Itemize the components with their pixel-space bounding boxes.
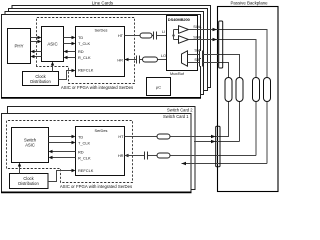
wire SOA to backplane [189,28,268,164]
buffer A [179,26,189,34]
svg-text:DS40MB200: DS40MB200 [168,17,191,22]
wire PHY-ASIC clk tx [31,40,42,43]
passive backplane [218,1,279,192]
wire clock to ASIC [51,62,54,72]
buffer B [179,36,189,44]
svg-text:ASIC: ASIC [25,143,35,148]
svg-text:SOB: SOB [193,34,202,39]
capacitor C2 (LO-HR) [137,56,140,64]
dashed box: ASIC or FPGA with integrated SerDes (switch card) [7,121,133,183]
wire into buffer A [174,29,179,31]
wire ASIC-PHY data rx [31,50,42,53]
svg-text:HR: HR [117,58,123,63]
wire clock to switch ASIC [18,163,21,174]
wire SIA from backplane [188,55,240,142]
svg-text:SOA: SOA [193,24,202,29]
wire SerDes-ASIC R_CLK (switch) [49,156,76,159]
wire PHY-ASIC data tx [31,36,42,39]
backplane connector J6 (line card edge) [219,21,223,68]
svg-text:HT: HT [118,134,124,139]
wire SIB from backplane [188,63,229,137]
line card 3 [9,9,208,91]
uC U5 [147,78,171,96]
capacitor C4 (SIB) [200,59,203,67]
backplane connector J2 (line card) [236,78,243,102]
wire LO to HR [125,59,182,61]
svg-text:HR: HR [118,153,124,158]
svg-text:Distribution: Distribution [18,181,39,186]
svg-text:TD: TD [78,134,83,139]
svg-text:ASIC or FPGA with integrated S: ASIC or FPGA with integrated SerDes [60,184,132,189]
switch card 2 [8,107,196,190]
wire ASIC-PHY clk rx [31,55,42,58]
line card 1 (front) [2,15,201,98]
svg-text:Distribution: Distribution [30,79,51,84]
wire ASIC-SerDes T_CLK [64,42,76,45]
capacitor C3 (SIA) [200,51,203,59]
wire SOB to backplane [189,38,257,156]
capacitor C5 (HR switch) [145,151,148,159]
backplane connector J5 (switch card) [216,126,220,167]
mux/buffer U4 DS40MB200 [167,16,198,71]
wire ASIC-SerDes TD [64,36,76,39]
svg-text:T_CLK: T_CLK [78,41,91,46]
svg-text:Switch Card 2: Switch Card 2 [167,108,193,113]
svg-text:HT: HT [118,33,124,38]
backplane connector J4 (line card) [264,78,271,102]
svg-text:ASIC or FPGA with integrated S: ASIC or FPGA with integrated SerDes [61,85,133,90]
svg-text:REFCLK: REFCLK [78,168,94,173]
backplane connector J3 (line card) [253,78,260,102]
ASIC U2 [42,27,64,62]
arrow into HR [125,58,129,61]
capacitor C1 (HT-LI) [154,32,157,40]
backplane connector J1 (line card) [225,78,232,102]
wire ASIC-SerDes TD (switch) [49,135,76,138]
svg-text:Passive Backplane: Passive Backplane [230,1,268,6]
svg-text:µC: µC [156,85,161,90]
PHY U1 [8,29,31,64]
svg-text:RD: RD [78,149,84,154]
arrow into SerDes HR (switch) [125,154,129,157]
termination Z1 (HT) [140,33,152,38]
svg-text:SerDes: SerDes [95,28,108,33]
clock distribution (line card) [23,72,59,86]
wire SerDes HT to backplane connector (switch card 1) [125,136,216,138]
svg-text:LO: LO [161,53,166,58]
line card 2 [5,12,204,95]
wire ASIC-SerDes T_CLK (switch) [49,141,76,144]
termination Z4 (HT switch) [157,134,170,139]
termination Z2 (LO) [143,57,158,62]
svg-text:SerDes: SerDes [95,128,108,133]
node junction LI split [172,34,174,36]
wire HT to LI [125,35,174,37]
wire SerDes-ASIC RD [64,50,76,53]
wire HR from backplane (switch card 1) [125,155,257,157]
svg-text:TD: TD [78,35,83,40]
line card 4 (back) [12,6,211,88]
wire clock to REFCLK (switch) [48,169,76,182]
mux M1 [182,51,188,66]
svg-text:R_CLK: R_CLK [78,155,91,160]
SerDes U3 (line card) [76,27,125,77]
svg-text:RD: RD [78,49,84,54]
termination Z3 (HR switch) [157,153,170,158]
wire HT card2 to backplane [194,140,240,144]
svg-text:Mux/Buf: Mux/Buf [170,72,185,76]
svg-text:ASIC: ASIC [47,42,57,47]
switch ASIC U6 [12,128,49,163]
SerDes U7 (switch card) [76,127,125,176]
dashed box: ASIC or FPGA with integrated SerDes (line card) [37,18,135,84]
wire SerDes-ASIC R_CLK [64,56,76,59]
clock distribution (switch card) [10,174,49,189]
wire SerDes-ASIC RD (switch) [49,150,76,153]
svg-text:REFCLK: REFCLK [78,68,94,73]
svg-text:LI: LI [162,29,165,34]
wire LI split vertical [173,30,175,40]
svg-text:PHY: PHY [14,44,23,49]
svg-text:T_CLK: T_CLK [78,140,91,145]
switch card 1 thick bottom edge [1,191,192,193]
svg-text:Switch Card 1: Switch Card 1 [163,114,189,119]
line card 1 thick bottom edge [1,97,201,99]
svg-text:R_CLK: R_CLK [78,55,91,60]
wire clock to REFCLK [59,69,76,80]
wire HR card2 from backplane [182,162,268,166]
switch card 1 [2,114,192,193]
wire into buffer B [174,39,179,41]
svg-text:Line Cards: Line Cards [92,1,114,6]
